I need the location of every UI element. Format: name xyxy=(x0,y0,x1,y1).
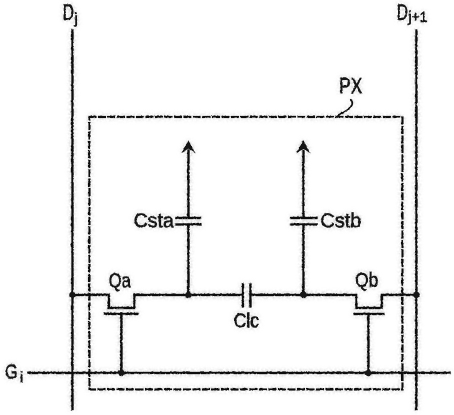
capacitor Cstb xyxy=(291,141,316,295)
capacitor Csta xyxy=(176,141,200,295)
svg-text:Csta: Csta xyxy=(133,210,174,232)
label Dj+1 xyxy=(397,0,428,26)
capacitor Clc xyxy=(243,284,251,306)
wire: segment (Qb drain to Dj+1) xyxy=(382,293,417,296)
svg-text:PX: PX xyxy=(339,73,362,98)
svg-text:Clc: Clc xyxy=(233,310,258,332)
junction: Qa gate / Gi xyxy=(118,369,125,376)
label Dj xyxy=(63,0,78,27)
svg-text:j: j xyxy=(73,10,77,27)
wire: data line Dj (left vertical) xyxy=(71,30,74,409)
transistor Qa xyxy=(105,295,138,373)
svg-text:G: G xyxy=(5,361,17,384)
label Gi xyxy=(5,361,23,387)
svg-text:D: D xyxy=(397,0,408,25)
label Qb xyxy=(355,270,378,292)
junction: Qb gate / Gi xyxy=(365,369,372,376)
svg-text:Qa: Qa xyxy=(108,270,131,292)
svg-text:D: D xyxy=(63,0,74,25)
leader line for PX label xyxy=(337,100,352,117)
junction: Csta node xyxy=(185,291,192,298)
svg-text:Cstb: Cstb xyxy=(320,210,361,232)
junction: Dj / Qa source wire xyxy=(69,291,76,298)
svg-text:Qb: Qb xyxy=(355,270,378,292)
transistor Qb xyxy=(354,295,384,373)
label PX xyxy=(339,73,362,98)
wire: pixel node b (Clc right plate to Qb source) xyxy=(250,293,356,296)
wire: pixel node a (Qa drain to Clc left plate) xyxy=(134,293,242,296)
label Qa xyxy=(108,270,131,292)
pixel boundary PX (dashed box) xyxy=(89,117,402,390)
junction: Cstb node xyxy=(300,291,307,298)
svg-text:j+1: j+1 xyxy=(407,9,427,26)
label Cstb xyxy=(320,210,361,232)
wire: data line Dj+1 (right vertical) xyxy=(415,30,418,409)
label Clc xyxy=(233,310,258,332)
wire: node segment (Dj to Qa source) xyxy=(72,293,109,296)
junction: Dj+1 / Qb drain wire xyxy=(413,291,420,298)
label Csta xyxy=(133,210,174,232)
wire: gate line Gi (bottom horizontal) xyxy=(28,371,449,374)
svg-text:i: i xyxy=(20,369,23,386)
